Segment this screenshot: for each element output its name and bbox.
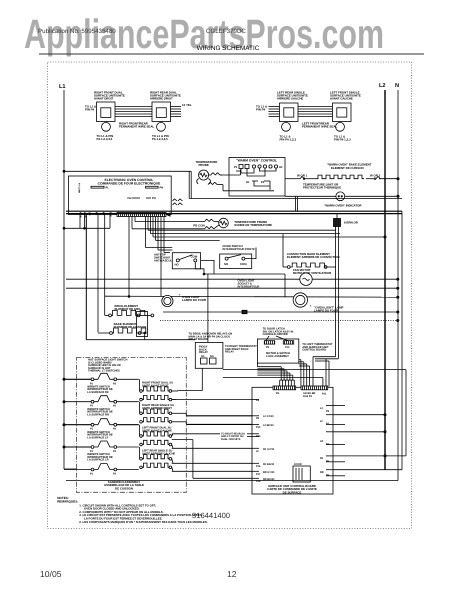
lamp oven light left xyxy=(162,294,207,307)
svg-text:AVANT GAUCHE: AVANT GAUCHE xyxy=(330,97,353,101)
svg-text:DOOR: DOOR xyxy=(294,463,302,466)
svg-text:ELEMENT ARRIERE DE CONVECTION: ELEMENT ARRIERE DE CONVECTION xyxy=(287,255,339,259)
U1 bottom pin ticks xyxy=(80,213,110,215)
svg-text:L2 BK/30: L2 BK/30 xyxy=(263,424,274,427)
electronic oven control U1 box xyxy=(68,176,171,215)
svg-text:COMMANDE DE FOUR ELECTRONIQUE: COMMANDE DE FOUR ELECTRONIQUE xyxy=(98,182,161,186)
label temperature limiter xyxy=(303,182,341,189)
lock motor M2 box xyxy=(257,339,298,363)
svg-text:ELEMENT DE GRIL: ELEMENT DE GRIL xyxy=(115,307,142,311)
wire piggy feed vertical xyxy=(207,274,209,342)
svg-text:WIRING SCHEMATIC: WIRING SCHEMATIC xyxy=(197,45,260,52)
wire bus row 288.2 xyxy=(66,287,399,289)
svg-text:ANTIBASCUL: ANTIBASCUL xyxy=(154,259,172,263)
svg-text:PERMANENT WIRE SEAL: PERMANENT WIRE SEAL xyxy=(119,125,154,129)
label right front/rear between xyxy=(119,122,154,129)
potentiometer SU4 circle xyxy=(336,122,345,132)
svg-text:PH: PH xyxy=(160,187,164,190)
resistor temperature probe receptacle xyxy=(197,170,241,191)
svg-text:RELAY: RELAY xyxy=(199,351,208,354)
node L1 label xyxy=(59,84,66,90)
potentiometer SU3 circle xyxy=(282,122,291,132)
svg-text:PIN P4: PIN P4 xyxy=(85,108,95,112)
resistor warm oven bake element row xyxy=(285,173,399,179)
label right front switch xyxy=(87,385,113,394)
sandwich assembly label xyxy=(104,480,144,490)
svg-text:DE CUISSON: DE CUISSON xyxy=(115,486,133,490)
label element pair 1 xyxy=(142,382,173,388)
svg-text:"WARM OVEN" INDICATOR: "WARM OVEN" INDICATOR xyxy=(324,204,362,208)
label left rear switch xyxy=(87,453,113,462)
wire U2 left row feeds xyxy=(172,400,252,479)
surface unit SU1 right front dual label xyxy=(94,91,125,101)
svg-text:N: N xyxy=(395,83,399,89)
wire switch feed row2 xyxy=(158,250,285,297)
wire ribbon SU2 right stub xyxy=(171,107,182,117)
svg-text:P11: P11 xyxy=(322,393,327,396)
surface unit SU3 box xyxy=(280,103,299,122)
surface unit SU1 box xyxy=(97,102,116,122)
surface unit SU3 left rear label xyxy=(277,91,308,101)
label warm oven indicator xyxy=(324,204,362,208)
wire right vertical pair from J2 xyxy=(313,227,339,387)
svg-text:LA SURFACE RR: LA SURFACE RR xyxy=(87,413,109,416)
svg-text:L1: L1 xyxy=(59,84,66,90)
label PB CON xyxy=(193,223,204,227)
resistor element pair 4 xyxy=(140,447,173,471)
svg-text:"WARM OVEN" CONTROL: "WARM OVEN" CONTROL xyxy=(236,159,277,163)
label element pair 2 xyxy=(142,404,174,410)
watermark AppliancePartsPros.com xyxy=(24,11,384,57)
svg-text:PROBE: PROBE xyxy=(199,163,209,167)
label TO L1 PIN left of SU3 xyxy=(256,105,267,112)
wire L1 switch rows xyxy=(63,378,139,469)
label 8 BRN OR xyxy=(344,221,359,225)
svg-text:LR: LR xyxy=(320,440,324,443)
svg-text:PERMANENT WIRE SEAL: PERMANENT WIRE SEAL xyxy=(302,125,337,129)
label right of lock motor xyxy=(302,343,333,352)
svg-text:PIN P4: PIN P4 xyxy=(256,108,266,112)
resistor bar right in U1 xyxy=(146,186,164,189)
resistor broil element xyxy=(105,310,154,316)
lamp oven light right xyxy=(293,293,343,313)
svg-text:12: 12 xyxy=(227,569,237,579)
switch S4 door box xyxy=(220,248,256,269)
resistor bar left in U1 xyxy=(91,186,109,189)
svg-text:COM: COM xyxy=(240,262,247,266)
header publication number xyxy=(38,28,246,35)
svg-text:PIN P4-1,2,3: PIN P4-1,2,3 xyxy=(334,138,351,142)
wire N bus xyxy=(66,90,398,481)
label element pair 4 xyxy=(142,450,175,456)
resistor convection bake element xyxy=(283,263,336,268)
wire long bus pair mid xyxy=(66,211,402,213)
svg-text:RF GY/30: RF GY/30 xyxy=(263,448,275,451)
svg-text:8 BRN OR: 8 BRN OR xyxy=(344,221,359,225)
wire elbow warm oven to connector xyxy=(296,196,338,219)
wire long row y198.5 xyxy=(189,198,402,200)
svg-text:P4-1,2,3,4,5: P4-1,2,3,4,5 xyxy=(152,137,168,141)
svg-text:MOTEUR DE VENTILATEUR: MOTEUR DE VENTILATEUR xyxy=(293,271,332,275)
wire L2 bus xyxy=(384,90,386,470)
wire L1 bus xyxy=(64,90,77,469)
motor M1 fan xyxy=(66,273,399,285)
wire lock motor right bundle xyxy=(299,360,310,387)
svg-text:L2 GY/30: L2 GY/30 xyxy=(263,415,274,418)
U2 right pin labels xyxy=(320,407,330,477)
svg-text:CONSOLE CENTER: CONSOLE CENTER xyxy=(263,333,288,336)
svg-text:Publication No: 5995435480: Publication No: 5995435480 xyxy=(38,28,116,35)
svg-text:LA SURFACE LR: LA SURFACE LR xyxy=(87,459,108,462)
svg-text:RR BK/30: RR BK/30 xyxy=(263,478,275,481)
wire ribbon SU3 left stub xyxy=(269,107,280,117)
wire L1 feed row y171 xyxy=(63,170,191,198)
wire ribbon SU3-SU4 xyxy=(298,107,333,117)
connector block at element right terminals xyxy=(137,312,148,337)
svg-text:10 YEL: 10 YEL xyxy=(182,103,192,107)
wire row 312 with plug xyxy=(163,310,399,313)
relay K2 sub-box in U2 xyxy=(293,463,310,482)
U1 multi-pin connector strip xyxy=(117,213,166,217)
svg-text:PB CON: PB CON xyxy=(193,223,204,227)
label right rear switch xyxy=(87,408,113,417)
svg-text:RELAY BOARD: RELAY BOARD xyxy=(189,338,208,341)
oven light socket label xyxy=(238,279,260,289)
svg-text:L2: L2 xyxy=(379,83,386,89)
svg-text:PIN P4-1,2,3: PIN P4-1,2,3 xyxy=(280,138,297,142)
svg-text:W OR 2: W OR 2 xyxy=(370,173,381,177)
label temperature probe xyxy=(234,220,272,227)
piggy back relay note label xyxy=(189,333,233,342)
svg-text:P4-1,2,3,4,5: P4-1,2,3,4,5 xyxy=(97,137,113,141)
switch SW4 infinite xyxy=(90,441,117,453)
resistor element pair 3 xyxy=(140,425,173,449)
wire drops from U1 connector strip xyxy=(128,217,386,298)
label element pair 3 xyxy=(142,427,172,433)
svg-text:P1: P1 xyxy=(234,166,238,169)
footer date 10/05 xyxy=(40,569,62,579)
U1 VG PH labels xyxy=(127,197,156,200)
label left of lock motor xyxy=(225,345,257,354)
footer page 12 xyxy=(227,569,237,579)
svg-text:DLB P4: DLB P4 xyxy=(303,395,313,398)
svg-text:P16: P16 xyxy=(256,465,261,468)
U2 left pin labels xyxy=(256,399,275,483)
svg-text:RF: RF xyxy=(320,457,324,460)
svg-text:LF: LF xyxy=(256,450,260,453)
label small mid right of pairs xyxy=(221,432,245,441)
svg-text:ARRIERE DROIT: ARRIERE DROIT xyxy=(150,97,173,101)
svg-text:P17: P17 xyxy=(256,473,261,476)
svg-text:NC: NC xyxy=(201,355,205,358)
broil element label xyxy=(115,304,142,311)
label left front/rear between xyxy=(302,122,337,129)
temperature probe receptacle label xyxy=(196,160,218,167)
svg-text:PH: PH xyxy=(152,197,156,200)
wire oven light row 297 xyxy=(105,296,399,298)
relay K1 piggy back box xyxy=(195,342,223,368)
part number 316441400 xyxy=(192,511,230,520)
connector comb P5 above board xyxy=(280,380,295,386)
warm oven control S2 title xyxy=(236,159,277,163)
svg-text:RR GY/30: RR GY/30 xyxy=(263,471,275,474)
svg-text:LAMPE DU FOUR: LAMPE DU FOUR xyxy=(182,298,207,302)
label TO L1 PIN under SU1 xyxy=(97,134,114,141)
switch SW2 infinite xyxy=(90,396,117,408)
resistor bake element xyxy=(98,328,147,340)
bake element label xyxy=(114,322,147,329)
title WIRING SCHEMATIC xyxy=(197,45,260,52)
S2 terminal row xyxy=(234,165,283,170)
svg-text:AVANT DROIT: AVANT DROIT xyxy=(94,97,114,101)
svg-text:ELEMENT DE CUISSON: ELEMENT DE CUISSON xyxy=(331,166,364,170)
switch SW5 infinite xyxy=(90,464,117,476)
S2 internal wires xyxy=(236,168,276,190)
svg-text:LF: LF xyxy=(320,420,324,423)
surface unit SU2 right rear label xyxy=(150,91,181,101)
wire row 369.6 to right xyxy=(223,359,406,456)
U1 left edge vertical label xyxy=(77,183,80,194)
svg-text:LA SURFACE LF: LA SURFACE LF xyxy=(87,436,108,439)
outer dotted frame xyxy=(48,62,412,529)
lock motor pointer lines xyxy=(266,336,288,341)
convection bake element label xyxy=(287,252,339,259)
lamp warm oven indicator xyxy=(285,192,399,201)
svg-text:THERMAL LT SWITCHES: THERMAL LT SWITCHES xyxy=(88,370,120,373)
lock motor note label xyxy=(263,328,294,337)
svg-text:ARRIERE GAUCHE: ARRIERE GAUCHE xyxy=(277,97,303,101)
switch SW1 infinite xyxy=(90,373,117,385)
resistor element pair 2 xyxy=(140,402,187,425)
U2 top pin strip right xyxy=(301,386,328,398)
electronic oven control U1 title xyxy=(98,178,161,186)
plug marks at EOC right xyxy=(173,199,183,205)
svg-text:RF BK/30: RF BK/30 xyxy=(263,463,275,466)
svg-text:CGLEF379DC: CGLEF379DC xyxy=(206,28,246,35)
svg-text:LA SURFACE RF: LA SURFACE RF xyxy=(87,391,109,394)
svg-text:P18: P18 xyxy=(256,480,261,483)
svg-text:SONDE DE TEMPERATURE: SONDE DE TEMPERATURE xyxy=(234,223,272,227)
svg-text:CONTROL BOARD: CONTROL BOARD xyxy=(302,349,326,352)
anti-tip switch label xyxy=(154,253,172,263)
resistor temperature probe plug-in xyxy=(201,218,228,229)
label TO L1 PIN under SU3 xyxy=(280,135,297,142)
wire L1 junction row under EOC xyxy=(63,215,195,340)
wire bottom row 469.7 xyxy=(333,214,402,470)
svg-text:P13: P13 xyxy=(285,346,290,349)
arrow at EOC strip right xyxy=(167,213,171,216)
svg-text:P14: P14 xyxy=(256,426,261,429)
surface unit control board U2 box xyxy=(252,387,333,494)
svg-text:RR: RR xyxy=(320,471,324,474)
node L2 label xyxy=(379,83,386,89)
door switch label xyxy=(223,244,255,251)
U1 pin labels bottom row xyxy=(79,212,112,218)
svg-text:PL: PL xyxy=(106,187,110,190)
label left front switch xyxy=(87,431,113,440)
header rule line xyxy=(39,53,424,55)
label warm oven bake element xyxy=(327,163,372,170)
svg-text:COM: COM xyxy=(191,254,198,258)
switch S3 anti-tip box xyxy=(172,253,205,275)
wire ribbon SU1-SU2 xyxy=(115,107,152,117)
wire lock motor bundle rows xyxy=(257,363,292,380)
svg-text:LOCK ASSEMBLY: LOCK ASSEMBLY xyxy=(266,355,289,358)
svg-text:2. LES COMPOSANTS MARQUES D': 2. LES COMPOSANTS MARQUES D'UN * N'APPAR… xyxy=(79,520,207,524)
svg-text:10/05: 10/05 xyxy=(40,569,62,579)
U2 internal pin stubs xyxy=(252,400,333,479)
svg-text:INTERRUPTEUR: INTERRUPTEUR xyxy=(238,285,260,289)
label 10 YEL stub xyxy=(182,103,192,107)
warm oven control S2 box xyxy=(229,158,285,197)
potentiometer SU2 circle xyxy=(157,122,166,132)
svg-text:RELAY: RELAY xyxy=(225,351,234,354)
wire dotted row 320.5 xyxy=(160,319,399,321)
svg-text:DUAL CIRCUITS: DUAL CIRCUITS xyxy=(221,438,241,441)
label TO L1 PIN under SU2 xyxy=(152,134,169,141)
svg-text:H1: H1 xyxy=(246,181,250,184)
svg-text:P2: P2 xyxy=(261,181,265,184)
fan motor label xyxy=(293,268,332,275)
svg-text:REMARQUES:: REMARQUES: xyxy=(57,499,78,503)
sandwich assembly dash-dot box xyxy=(77,358,187,493)
node N label xyxy=(395,83,399,89)
label TO L1 PIN under SU4 xyxy=(334,135,351,142)
svg-text:NO: NO xyxy=(210,355,214,358)
svg-text:PROTECTEUR THERMIQUE: PROTECTEUR THERMIQUE xyxy=(303,186,341,190)
wire U2 right rows to L2 xyxy=(333,406,406,476)
U2 board bottom label xyxy=(267,484,317,494)
notes block xyxy=(57,496,208,524)
svg-text:H2: H2 xyxy=(279,166,283,169)
infinite switch note label xyxy=(88,359,127,373)
surface unit SU4 box xyxy=(333,103,352,122)
label TO L1 left of SU1 xyxy=(85,105,96,112)
potentiometer SU1 circle xyxy=(102,122,111,132)
switch SW3 infinite xyxy=(90,419,117,431)
resistor element pair 1 xyxy=(140,368,203,401)
U2 top pin strip left xyxy=(273,386,296,395)
surface unit SU2 box xyxy=(152,102,171,122)
wire row y190.8 xyxy=(223,169,274,191)
svg-text:DE SURFACE: DE SURFACE xyxy=(283,490,302,494)
surface unit SU4 left front label xyxy=(330,91,361,101)
svg-text:VG: VG xyxy=(127,197,131,200)
svg-text:INTERRUPTEUR PORTE: INTERRUPTEUR PORTE xyxy=(223,247,255,251)
connector plug J2 black xyxy=(334,219,341,227)
